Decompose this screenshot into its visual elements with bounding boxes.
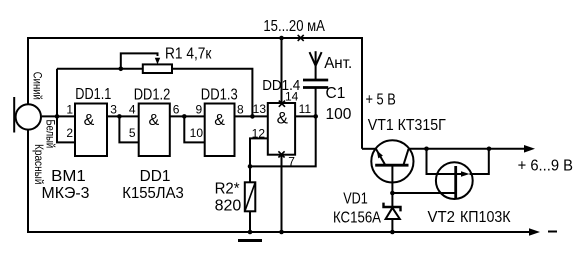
svg-text:8: 8 bbox=[237, 103, 244, 117]
svg-text:VT2: VT2 bbox=[428, 209, 456, 226]
svg-text:7: 7 bbox=[288, 155, 295, 169]
svg-text:6: 6 bbox=[173, 103, 180, 117]
svg-text:4: 4 bbox=[129, 103, 136, 117]
svg-text:VT1 КТ315Г: VT1 КТ315Г bbox=[368, 117, 446, 134]
svg-text:Красный: Красный bbox=[32, 144, 44, 185]
svg-text:&: & bbox=[277, 109, 289, 128]
svg-text:&: & bbox=[214, 112, 225, 129]
svg-text:Синий: Синий bbox=[31, 72, 43, 100]
svg-text:КС156А: КС156А bbox=[333, 209, 381, 226]
svg-text:ВМ1: ВМ1 bbox=[51, 168, 86, 185]
svg-text:МКЭ-3: МКЭ-3 bbox=[42, 185, 90, 202]
svg-text:DD1.2: DD1.2 bbox=[134, 86, 171, 103]
svg-text:DD1: DD1 bbox=[140, 168, 171, 185]
svg-text:5: 5 bbox=[129, 126, 136, 140]
svg-text:&: & bbox=[84, 112, 95, 129]
svg-text:14: 14 bbox=[285, 90, 299, 104]
svg-text:&: & bbox=[148, 112, 159, 129]
svg-text:VD1: VD1 bbox=[343, 190, 368, 207]
svg-text:R1 4,7к: R1 4,7к bbox=[165, 45, 212, 62]
svg-text:11: 11 bbox=[299, 102, 312, 116]
svg-text:3: 3 bbox=[110, 103, 117, 117]
svg-text:1: 1 bbox=[66, 103, 73, 117]
svg-text:DD1.3: DD1.3 bbox=[201, 86, 238, 103]
svg-text:Ант.: Ант. bbox=[324, 55, 352, 72]
svg-text:13: 13 bbox=[253, 102, 267, 116]
svg-text:100: 100 bbox=[326, 106, 352, 123]
svg-text:+ 6...9 В: + 6...9 В bbox=[518, 158, 573, 175]
svg-text:12: 12 bbox=[252, 126, 266, 140]
svg-text:2: 2 bbox=[66, 126, 73, 140]
svg-text:К155ЛА3: К155ЛА3 bbox=[122, 185, 184, 202]
svg-text:9: 9 bbox=[196, 103, 203, 117]
svg-text:Белый: Белый bbox=[44, 120, 56, 149]
svg-text:C1: C1 bbox=[326, 85, 346, 102]
svg-text:+ 5 В: + 5 В bbox=[366, 92, 396, 109]
svg-text:820: 820 bbox=[215, 198, 242, 215]
svg-text:КП103К: КП103К bbox=[460, 209, 511, 226]
svg-text:10: 10 bbox=[190, 126, 204, 140]
svg-text:DD1.1: DD1.1 bbox=[75, 86, 111, 103]
svg-text:15...20 мА: 15...20 мА bbox=[263, 18, 325, 35]
svg-text:R2*: R2* bbox=[215, 181, 240, 198]
